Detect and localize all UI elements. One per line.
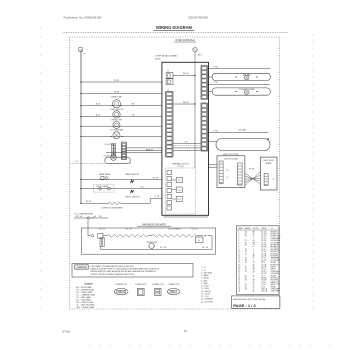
wire P 7B lower bbox=[209, 132, 269, 134]
svg-text:OVN LIGHT: OVN LIGHT bbox=[271, 289, 280, 291]
svg-text:18: 18 bbox=[245, 253, 247, 255]
svg-text:TO: TO bbox=[271, 228, 274, 230]
svg-text:BROIL IGNITOR: BROIL IGNITOR bbox=[126, 196, 141, 198]
svg-text:BK 7A: BK 7A bbox=[86, 200, 92, 203]
svg-text:BK.L. - BLACK LEAD: BK.L. - BLACK LEAD bbox=[76, 306, 95, 309]
oven fan motor loop bbox=[212, 73, 270, 80]
svg-text:P1: P1 bbox=[273, 179, 275, 181]
svg-text:13: 13 bbox=[238, 258, 240, 260]
svg-text:B.L. 30: B.L. 30 bbox=[99, 228, 105, 230]
svg-text:CONNECTOR: CONNECTOR bbox=[135, 284, 147, 286]
svg-text:18: 18 bbox=[245, 251, 247, 253]
svg-text:W: W bbox=[253, 267, 255, 269]
cooling fan motor bbox=[81, 135, 162, 137]
svg-text:P1-1 A: P1-1 A bbox=[261, 230, 267, 233]
svg-text:W: W bbox=[253, 234, 255, 236]
svg-text:BOARD: BOARD bbox=[266, 162, 273, 165]
svg-text:J4: J4 bbox=[167, 71, 169, 73]
svg-text:TB-2 B: TB-2 B bbox=[261, 280, 266, 282]
svg-text:18: 18 bbox=[238, 269, 240, 271]
door switch connector bbox=[112, 144, 114, 155]
svg-text:18: 18 bbox=[245, 231, 247, 233]
svg-text:W: W bbox=[253, 275, 255, 277]
svg-text:W 7A: W 7A bbox=[114, 90, 120, 93]
warmer drawer box bbox=[81, 228, 215, 254]
svg-text:OVEN RELAY BOARD: OVEN RELAY BOARD bbox=[155, 54, 178, 57]
svg-text:Y: Y bbox=[253, 289, 255, 291]
svg-text:GY: GY bbox=[253, 271, 256, 273]
connector icon 3 rect bbox=[155, 288, 161, 295]
connector icon 2 rect bbox=[137, 288, 144, 295]
svg-text:7: 7 bbox=[238, 245, 239, 247]
svg-text:W: W bbox=[253, 262, 255, 264]
svg-text:THERMOSTAT: THERMOSTAT bbox=[146, 241, 157, 244]
svg-text:R: R bbox=[253, 236, 255, 238]
svg-text:L 7B: L 7B bbox=[184, 141, 188, 143]
svg-text:4 - BAKE: 4 - BAKE bbox=[201, 274, 209, 277]
esec control board box bbox=[217, 156, 245, 188]
svg-text:CONNECTOR: CONNECTOR bbox=[115, 284, 127, 286]
svg-text:BK IGNTR: BK IGNTR bbox=[271, 249, 280, 251]
inner wire door 2 bbox=[173, 150, 201, 152]
svg-text:HD ELEM: HD ELEM bbox=[271, 278, 279, 280]
svg-text:P1-6 F: P1-6 F bbox=[261, 242, 266, 244]
svg-text:TCO: TCO bbox=[178, 199, 182, 201]
svg-text:BK 7A: BK 7A bbox=[153, 176, 159, 179]
svg-text:J4-2 B: J4-2 B bbox=[261, 267, 266, 269]
svg-text:14: 14 bbox=[184, 329, 188, 333]
svg-text:14 - GROUND: 14 - GROUND bbox=[201, 301, 213, 303]
svg-text:07/15: 07/15 bbox=[63, 329, 71, 333]
svg-text:14: 14 bbox=[238, 260, 240, 262]
wire to relay board upper bbox=[126, 147, 161, 149]
UIB board box bbox=[260, 157, 277, 190]
svg-text:P3-3 E: P3-3 E bbox=[261, 273, 267, 275]
svg-text:W-2: W-2 bbox=[99, 216, 102, 218]
svg-text:P 7B: P 7B bbox=[213, 66, 218, 68]
svg-text:VERIFY PROPER OPERATION AFTER: VERIFY PROPER OPERATION AFTER SERVICING. bbox=[91, 273, 135, 276]
svg-text:Y 7A: Y 7A bbox=[140, 185, 145, 188]
main dashed border bbox=[70, 37, 280, 309]
svg-text:PAGE : 1 / 2: PAGE : 1 / 2 bbox=[233, 303, 256, 308]
svg-text:18: 18 bbox=[245, 245, 247, 247]
svg-text:R 7A: R 7A bbox=[155, 195, 160, 198]
UIB connector strip bbox=[264, 173, 268, 185]
wire J2 row to console line bbox=[173, 103, 195, 105]
connector icon 4 oval bbox=[168, 288, 180, 294]
svg-text:18: 18 bbox=[245, 275, 247, 277]
broil ignitor bbox=[131, 190, 134, 193]
svg-text:UIB P1: UIB P1 bbox=[271, 267, 276, 269]
svg-text:V: V bbox=[253, 251, 255, 253]
connector icon 1 oval bbox=[114, 288, 128, 294]
svg-text:BR IGNTR: BR IGNTR bbox=[271, 251, 280, 253]
svg-text:HD ELEM: HD ELEM bbox=[271, 253, 279, 255]
svg-text:W: W bbox=[253, 282, 255, 284]
svg-text:C 9A: C 9A bbox=[131, 114, 136, 117]
svg-text:R: R bbox=[253, 258, 255, 260]
svg-text:P1-2 B: P1-2 B bbox=[261, 234, 266, 236]
svg-text:P2-5: P2-5 bbox=[261, 262, 265, 264]
svg-text:BL: BL bbox=[253, 240, 255, 242]
svg-text:WIRING DIAGRAM: WIRING DIAGRAM bbox=[156, 25, 193, 30]
inner dashed wire bbox=[166, 145, 201, 147]
svg-text:WIRE: WIRE bbox=[238, 228, 243, 230]
warmer element wire bbox=[88, 235, 91, 237]
svg-text:15: 15 bbox=[238, 262, 240, 264]
svg-text:CONNECTOR: CONNECTOR bbox=[152, 284, 164, 286]
heater element zigzag 1 bbox=[107, 234, 148, 237]
svg-text:18: 18 bbox=[245, 289, 247, 291]
svg-text:B 7: B 7 bbox=[76, 161, 79, 163]
svg-text:18: 18 bbox=[245, 258, 247, 260]
svg-text:P3: P3 bbox=[227, 170, 229, 172]
svg-text:18: 18 bbox=[245, 234, 247, 236]
wires relay to esec bbox=[209, 164, 218, 166]
svg-text:J2-2 B: J2-2 B bbox=[261, 256, 266, 258]
svg-text:18: 18 bbox=[245, 236, 247, 238]
svg-text:BROIL TCO: BROIL TCO bbox=[271, 284, 280, 286]
svg-text:N: N bbox=[80, 48, 82, 52]
svg-text:OVEN LIGHT: OVEN LIGHT bbox=[111, 97, 123, 99]
svg-text:P2-3 C: P2-3 C bbox=[261, 249, 267, 251]
svg-text:CAUTION: CAUTION bbox=[77, 266, 87, 269]
svg-text:ESEC 30 UIB: ESEC 30 UIB bbox=[263, 160, 274, 162]
svg-text:A/EW30GF65G (8/0*-29061-R01/A): A/EW30GF65G (8/0*-29061-R01/A) bbox=[233, 298, 265, 301]
svg-text:T 9A: T 9A bbox=[131, 103, 136, 106]
neutral terminal box N bbox=[79, 48, 83, 52]
svg-text:11: 11 bbox=[238, 253, 240, 255]
dashed neutral wire bbox=[70, 162, 131, 164]
inner wire L 7B bbox=[173, 143, 201, 145]
convection element wire bbox=[81, 202, 109, 204]
warmer return wire bbox=[101, 249, 212, 251]
svg-text:17: 17 bbox=[238, 267, 240, 269]
svg-text:THERMAL CUTOUT: THERMAL CUTOUT bbox=[172, 162, 190, 165]
svg-text:BK: BK bbox=[253, 231, 256, 233]
svg-text:T: T bbox=[253, 249, 254, 251]
svg-text:18: 18 bbox=[245, 271, 247, 273]
svg-text:BL: BL bbox=[253, 291, 255, 293]
svg-text:8: 8 bbox=[238, 247, 239, 249]
svg-text:LEGEND: LEGEND bbox=[84, 284, 93, 286]
scan artifact dots right bbox=[312, 34, 314, 36]
svg-text:R: R bbox=[253, 284, 255, 286]
main vertical bus wire bbox=[80, 51, 82, 203]
svg-text:W.L. 30: W.L. 30 bbox=[202, 247, 208, 249]
svg-text:18: 18 bbox=[245, 260, 247, 262]
svg-text:P2-2 B: P2-2 B bbox=[261, 247, 266, 249]
svg-text:24: 24 bbox=[238, 282, 240, 284]
warmer drop connectors bbox=[100, 238, 102, 247]
wire Y 7B bbox=[209, 83, 271, 85]
svg-text:P2-5: P2-5 bbox=[261, 275, 265, 277]
svg-text:DOOR SW: DOOR SW bbox=[271, 260, 279, 262]
svg-text:BRN 7B: BRN 7B bbox=[146, 150, 154, 152]
TCO connector squares bbox=[167, 171, 172, 175]
svg-text:LABEL ALL WIRES PRIOR TO DISCO: LABEL ALL WIRES PRIOR TO DISCONNECTION W… bbox=[91, 268, 161, 271]
svg-text:CONNECTOR: CONNECTOR bbox=[168, 284, 180, 286]
svg-text:CONSOLE: CONSOLE bbox=[271, 273, 280, 275]
svg-text:WARMER DRAWER: WARMER DRAWER bbox=[142, 222, 166, 226]
svg-text:25: 25 bbox=[238, 284, 240, 286]
connector P1 ladder upper bbox=[201, 66, 208, 100]
warmer loop right side bbox=[211, 236, 213, 250]
svg-text:BK: BK bbox=[253, 280, 256, 282]
wire bundle to UIB bbox=[245, 173, 260, 184]
oven lamp L3 bbox=[81, 125, 162, 127]
oven relay board box bbox=[162, 62, 209, 215]
convection fan motor loop bbox=[212, 88, 270, 95]
door latch connector ladder J3 bbox=[121, 142, 126, 159]
svg-text:18: 18 bbox=[245, 267, 247, 269]
svg-text:P 7B: P 7B bbox=[213, 130, 218, 132]
svg-text:6: 6 bbox=[238, 242, 239, 244]
svg-text:TCO-2: TCO-2 bbox=[261, 284, 266, 286]
svg-text:P2-4 D: P2-4 D bbox=[261, 251, 267, 253]
esec right connector strip bbox=[237, 163, 242, 185]
svg-text:5: 5 bbox=[238, 240, 239, 242]
svg-text:18: 18 bbox=[245, 286, 247, 288]
svg-text:P1-4 D: P1-4 D bbox=[261, 238, 267, 240]
svg-text:BK 7B: BK 7B bbox=[249, 169, 255, 171]
svg-text:18: 18 bbox=[245, 249, 247, 251]
svg-text:P3-1 C: P3-1 C bbox=[261, 269, 267, 271]
caution label bbox=[75, 265, 88, 269]
svg-text:Y: Y bbox=[253, 260, 255, 262]
svg-text:(P91): (P91) bbox=[155, 59, 161, 61]
svg-text:BROIL VALVE: BROIL VALVE bbox=[97, 185, 110, 188]
svg-text:TCO: TCO bbox=[178, 180, 182, 182]
broil valve dashed outline bbox=[94, 184, 114, 192]
oven door loop bbox=[216, 139, 270, 151]
wire BRN 7B bbox=[106, 152, 162, 154]
svg-text:P: P bbox=[253, 247, 254, 249]
top separator dashed line bbox=[64, 32, 289, 34]
svg-text:27: 27 bbox=[238, 289, 240, 291]
scan artifact dots bottom bbox=[89, 345, 91, 347]
svg-text:DLB MOTOR: DLB MOTOR bbox=[271, 236, 282, 238]
svg-text:HD ELEM: HD ELEM bbox=[271, 256, 279, 258]
lamp switch L2 bbox=[81, 116, 162, 118]
svg-text:BK: BK bbox=[253, 269, 256, 271]
svg-text:H. D. ELEMENT: H. D. ELEMENT bbox=[168, 228, 182, 230]
svg-text:12: 12 bbox=[238, 256, 240, 258]
svg-text:18: 18 bbox=[245, 262, 247, 264]
svg-text:COLOR: COLOR bbox=[253, 228, 260, 230]
svg-text:W 7B: W 7B bbox=[114, 80, 120, 82]
svg-text:4: 4 bbox=[238, 238, 239, 240]
TCO breaker boxes bbox=[176, 177, 182, 182]
svg-text:BK 9: BK 9 bbox=[198, 55, 202, 57]
svg-text:18: 18 bbox=[245, 269, 247, 271]
svg-text:P1-3 C: P1-3 C bbox=[261, 236, 267, 238]
svg-text:COOLING FAN: COOLING FAN bbox=[110, 129, 124, 132]
svg-text:BK: BK bbox=[253, 256, 256, 258]
svg-text:R.L. 30: R.L. 30 bbox=[160, 247, 166, 249]
svg-text:P1-5 E: P1-5 E bbox=[261, 240, 267, 242]
relay board bottom double line bbox=[164, 216, 209, 218]
svg-text:20: 20 bbox=[238, 273, 240, 275]
svg-text:10 - LATCH: 10 - LATCH bbox=[201, 290, 211, 293]
svg-text:R.L. 30: R.L. 30 bbox=[126, 228, 132, 230]
svg-text:P3-2 D: P3-2 D bbox=[261, 271, 267, 273]
svg-text:HD ELEM: HD ELEM bbox=[271, 280, 279, 282]
svg-text:P: P bbox=[253, 273, 254, 275]
svg-text:18: 18 bbox=[245, 278, 247, 280]
svg-text:28: 28 bbox=[238, 291, 240, 293]
wire P 7B top bbox=[209, 68, 271, 70]
svg-text:2: 2 bbox=[238, 234, 239, 236]
svg-text:P1: P1 bbox=[227, 177, 229, 179]
svg-text:RELAY K1: RELAY K1 bbox=[271, 230, 279, 233]
thermal cutout dashed box bbox=[166, 168, 196, 214]
svg-text:A 7A: A 7A bbox=[96, 114, 101, 117]
svg-text:23: 23 bbox=[238, 280, 240, 282]
svg-text:BK-2 7A: BK-2 7A bbox=[76, 215, 83, 218]
svg-text:CONVECTION ELEMENT: CONVECTION ELEMENT bbox=[101, 208, 124, 210]
svg-text:Y: Y bbox=[253, 238, 255, 240]
bake ignitor bbox=[131, 180, 134, 183]
svg-text:R.L. 30: R.L. 30 bbox=[192, 228, 198, 230]
svg-text:E30GF45GSB: E30GF45GSB bbox=[189, 15, 208, 19]
svg-text:9: 9 bbox=[238, 249, 239, 251]
svg-text:16: 16 bbox=[238, 264, 240, 266]
svg-text:T: T bbox=[253, 278, 254, 280]
svg-text:TCO-1: TCO-1 bbox=[261, 282, 266, 284]
svg-text:P2-5: P2-5 bbox=[261, 286, 265, 288]
svg-text:BL: BL bbox=[253, 264, 255, 266]
svg-text:UIB P2: UIB P2 bbox=[271, 269, 276, 271]
svg-text:30: 30 bbox=[198, 240, 200, 242]
svg-text:18: 18 bbox=[245, 240, 247, 242]
svg-text:(TCO1): (TCO1) bbox=[178, 166, 184, 168]
svg-text:BK 7A(2): BK 7A(2) bbox=[239, 128, 247, 131]
svg-text:18: 18 bbox=[245, 280, 247, 282]
svg-text:OVEN LIGHT: OVEN LIGHT bbox=[111, 119, 123, 121]
svg-text:A 7A: A 7A bbox=[96, 103, 101, 106]
svg-text:GY: GY bbox=[253, 245, 256, 247]
warmer terminal block bbox=[195, 237, 203, 243]
svg-text:J2-4 D: J2-4 D bbox=[261, 260, 267, 262]
svg-text:W6 7B: W6 7B bbox=[183, 73, 189, 75]
svg-text:Publication No. 5995603159: Publication No. 5995603159 bbox=[64, 15, 102, 19]
svg-text:3: 3 bbox=[238, 236, 239, 238]
page number box bbox=[232, 296, 280, 308]
svg-text:BAKE IGNITOR: BAKE IGNITOR bbox=[126, 173, 140, 176]
svg-text:CONVECTION FAN: CONVECTION FAN bbox=[239, 88, 256, 91]
svg-text:1: 1 bbox=[238, 231, 239, 233]
svg-text:**: ** bbox=[84, 53, 86, 56]
wire J4 to console line bbox=[173, 75, 195, 77]
wire chart box bbox=[237, 226, 280, 295]
svg-text:MDL FAN: MDL FAN bbox=[243, 73, 251, 76]
svg-text:BAKE VALVE: BAKE VALVE bbox=[99, 173, 111, 176]
wire console to relay board bbox=[194, 52, 196, 168]
connector ring to console bbox=[193, 48, 197, 52]
svg-text:7 - FAN: 7 - FAN bbox=[201, 282, 208, 285]
svg-text:21: 21 bbox=[238, 275, 240, 277]
svg-text:DISCONNECT POWER BEFORE SERVIC: DISCONNECT POWER BEFORE SERVICING UNIT. bbox=[91, 266, 135, 268]
svg-text:18: 18 bbox=[245, 284, 247, 286]
svg-text:10: 10 bbox=[238, 251, 240, 253]
caution box bbox=[72, 264, 193, 278]
svg-text:GAUGE: GAUGE bbox=[245, 227, 252, 230]
svg-text:OVEN CONSOLE: OVEN CONSOLE bbox=[175, 39, 195, 42]
svg-text:26: 26 bbox=[238, 286, 240, 288]
svg-text:CONSOLE: CONSOLE bbox=[271, 271, 280, 273]
svg-text:TCO: TCO bbox=[178, 190, 182, 192]
svg-text:Y 7B: Y 7B bbox=[213, 82, 218, 84]
oven lamp L1 bbox=[81, 105, 162, 107]
svg-text:BR: BR bbox=[253, 242, 256, 244]
svg-text:W: W bbox=[253, 253, 255, 255]
scan artifact dots left bbox=[40, 27, 42, 29]
esec left connector strip bbox=[219, 161, 223, 184]
wire W 7B bbox=[81, 81, 162, 83]
connector P1 ladder lower bbox=[201, 103, 208, 151]
wire W 7A bbox=[81, 93, 162, 95]
warmer thermostat circle bbox=[149, 243, 154, 248]
svg-text:3 - NEUTRAL: 3 - NEUTRAL bbox=[201, 271, 212, 274]
inner wire door 1 bbox=[173, 147, 201, 149]
svg-text:SW-2 B: SW-2 B bbox=[261, 291, 267, 293]
svg-text:CONTROL BOARD: CONTROL BOARD bbox=[224, 157, 239, 160]
svg-text:18: 18 bbox=[245, 242, 247, 244]
svg-text:J2-3 C: J2-3 C bbox=[261, 258, 267, 260]
latch assembly outline bbox=[105, 157, 131, 163]
heater element zigzag 2 bbox=[152, 234, 196, 237]
svg-text:WIRING ERRORS CAN CAUSE IMPROP: WIRING ERRORS CAN CAUSE IMPROPER AND DAN… bbox=[91, 270, 157, 273]
svg-text:22: 22 bbox=[238, 278, 240, 280]
svg-text:19: 19 bbox=[238, 271, 240, 273]
wire to relay board lower bbox=[126, 150, 161, 152]
svg-text:FROM: FROM bbox=[262, 228, 267, 230]
svg-text:W6 7B: W6 7B bbox=[183, 102, 189, 104]
svg-text:W: W bbox=[253, 286, 255, 288]
